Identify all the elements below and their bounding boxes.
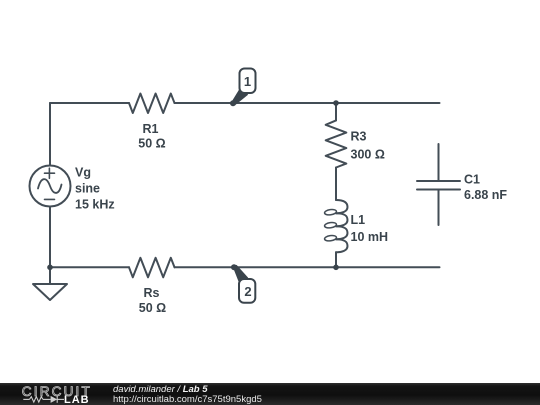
capacitor C1 top lead	[438, 144, 440, 181]
wire L1 bottom lead	[335, 252, 337, 267]
svg-text:10 mH: 10 mH	[351, 230, 389, 244]
svg-text:50 Ω: 50 Ω	[139, 301, 166, 315]
junction dot source	[47, 265, 53, 271]
node 1 flag tail	[232, 88, 249, 106]
credit line	[113, 384, 208, 395]
wire left vertical lower	[49, 207, 51, 268]
wire top-left horizontal	[50, 102, 129, 104]
svg-text:R1: R1	[143, 122, 159, 136]
wire R3-L1 link	[335, 168, 337, 201]
svg-text:Vg: Vg	[75, 166, 91, 180]
wire bottom-right horizontal	[175, 266, 440, 268]
voltage source Vg	[30, 166, 71, 207]
svg-text:6.88 nF: 6.88 nF	[464, 188, 507, 202]
capacitor C1	[417, 180, 460, 182]
junction dot bottom	[333, 265, 339, 271]
wire left vertical upper	[49, 103, 51, 166]
svg-text:15 kHz: 15 kHz	[75, 198, 115, 212]
node 1 dot	[230, 100, 236, 106]
wire R3 top lead	[335, 103, 337, 120]
junction dot top	[333, 100, 339, 106]
node 1 flag	[240, 69, 256, 94]
inductor L1	[336, 200, 348, 213]
footer bar	[0, 383, 540, 405]
resistor R3	[326, 120, 347, 167]
svg-text:1: 1	[244, 74, 251, 89]
capacitor C1 bottom lead	[438, 190, 440, 226]
svg-text:2: 2	[244, 284, 251, 299]
node 2 flag	[239, 279, 255, 303]
svg-text:C1: C1	[464, 173, 480, 187]
svg-text:R3: R3	[351, 130, 367, 144]
node 2 dot	[231, 264, 237, 270]
svg-text:sine: sine	[75, 182, 100, 196]
ground	[33, 284, 67, 300]
svg-text:LAB: LAB	[64, 394, 90, 405]
node 2 flag tail	[233, 265, 249, 285]
wire top-right horizontal	[175, 102, 440, 104]
resistor R1	[129, 94, 175, 114]
svg-text:L1: L1	[351, 213, 366, 227]
svg-text:Rs: Rs	[144, 286, 160, 300]
resistor Rs	[129, 258, 175, 278]
wire bottom-left horizontal	[50, 266, 129, 268]
svg-text:300 Ω: 300 Ω	[351, 148, 385, 162]
svg-text:50 Ω: 50 Ω	[138, 137, 165, 151]
logo CIRCUIT LAB	[0, 383, 110, 405]
wire ground lead	[49, 267, 51, 284]
url line	[113, 394, 262, 405]
